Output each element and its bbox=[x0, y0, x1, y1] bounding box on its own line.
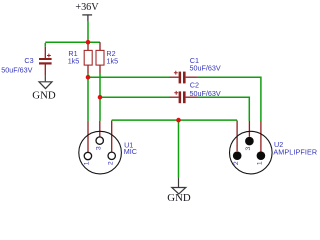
svg-text:AMPLIPFIER: AMPLIPFIER bbox=[273, 147, 317, 156]
svg-text:50uF/63V: 50uF/63V bbox=[190, 89, 221, 98]
svg-text:1: 1 bbox=[257, 161, 264, 165]
svg-text:MIC: MIC bbox=[124, 147, 137, 156]
svg-text:2: 2 bbox=[233, 161, 240, 165]
svg-text:+36V: +36V bbox=[75, 2, 99, 13]
svg-text:1k5: 1k5 bbox=[68, 56, 80, 65]
svg-text:3: 3 bbox=[245, 146, 252, 150]
svg-text:GND: GND bbox=[32, 89, 56, 101]
svg-text:2: 2 bbox=[108, 161, 115, 165]
svg-text:50uF/63V: 50uF/63V bbox=[190, 63, 221, 72]
svg-text:1k5: 1k5 bbox=[107, 56, 119, 65]
svg-text:C3: C3 bbox=[24, 56, 33, 65]
svg-text:50uF/63V: 50uF/63V bbox=[1, 65, 32, 74]
svg-text:1: 1 bbox=[84, 161, 91, 165]
svg-text:GND: GND bbox=[167, 192, 191, 204]
svg-text:3: 3 bbox=[96, 146, 103, 150]
